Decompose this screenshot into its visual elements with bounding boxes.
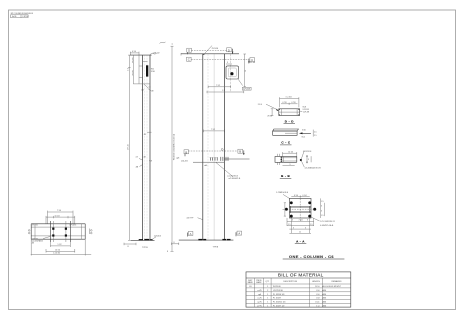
svg-text:DESCRIPTION: DESCRIPTION	[283, 281, 297, 283]
svg-text:2-L2X2X1/4: 2-L2X2X1/4	[303, 151, 312, 153]
leader PL at top	[204, 46, 212, 55]
svg-text:7-8T16: 7-8T16	[22, 16, 28, 18]
svg-text:L2X2X3/16: L2X2X3/16	[273, 290, 284, 292]
section marker A left	[188, 231, 193, 235]
bottom dim	[283, 165, 295, 167]
svg-text:10 1/4: 10 1/4	[55, 250, 60, 252]
D cut line	[191, 50, 226, 52]
svg-text:2-PL3/8: 2-PL3/8	[249, 62, 255, 64]
body	[275, 157, 282, 163]
svg-text:A-36: A-36	[12, 15, 16, 18]
left dim line	[128, 55, 130, 240]
svg-text:1.5: 1.5	[321, 201, 324, 203]
under base dim	[124, 243, 136, 245]
svg-text:1'-3: 1'-3	[128, 68, 130, 71]
svg-text:w/2-3/4 A325 B.: w/2-3/4 A325 B.	[229, 177, 241, 180]
svg-text:2-PL3/8: 2-PL3/8	[303, 109, 309, 111]
left dims	[277, 154, 279, 157]
svg-text:MARK: MARK	[248, 281, 254, 284]
rows	[249, 285, 341, 307]
top dim	[291, 196, 309, 198]
left bracket / clip	[132, 55, 134, 84]
svg-text:10 1/4: 10 1/4	[288, 151, 293, 153]
svg-text:3: 3	[305, 227, 306, 229]
svg-text:7 1/4: 7 1/4	[299, 220, 303, 222]
mid dim 7'-2	[204, 130, 225, 132]
svg-text:W12X40: W12X40	[273, 286, 282, 288]
top squiggle leader	[150, 53, 157, 55]
bolts	[52, 228, 54, 230]
svg-text:PL 3/4X11 1/4: PL 3/4X11 1/4	[273, 302, 286, 304]
right vertical dim	[244, 54, 246, 87]
body horizontal member	[31, 223, 85, 225]
bolt dot	[300, 159, 302, 161]
end circles	[28, 230, 30, 232]
svg-text:cb8 TYP: cb8 TYP	[187, 217, 195, 219]
flange lines	[289, 205, 311, 207]
C cut line	[191, 59, 249, 61]
svg-text:8: 8	[174, 242, 175, 244]
svg-text:PL5/16: PL5/16	[212, 48, 219, 50]
small top dim above plate	[226, 63, 232, 65]
dims below top assembly	[208, 86, 231, 88]
svg-text:1'-2: 1'-2	[222, 90, 225, 92]
plate with hole	[226, 66, 239, 79]
centerlines	[299, 196, 301, 222]
top dim 6 1/4	[130, 52, 139, 54]
section marker C left	[187, 57, 192, 61]
svg-text:D: D	[188, 49, 190, 53]
svg-text:1-7/8Ø HOLE: 1-7/8Ø HOLE	[276, 192, 289, 194]
girt connection lines	[221, 149, 223, 151]
B cut line	[188, 150, 238, 152]
svg-text:PL 3/8X6 3/4: PL 3/8X6 3/4	[273, 294, 285, 296]
svg-text:B: B	[239, 150, 241, 154]
section marker D right	[227, 48, 232, 52]
svg-text:6: 6	[283, 209, 285, 210]
svg-text:1-PL3/4: 1-PL3/4	[154, 235, 162, 237]
section marker D left	[187, 48, 192, 52]
svg-text:BILL OF MATERIAL: BILL OF MATERIAL	[278, 272, 324, 277]
plate leader to PL3/8	[238, 79, 243, 86]
bolt ticks	[210, 158, 212, 161]
bolts	[290, 201, 293, 204]
svg-text:8: 8	[167, 251, 168, 253]
column verticals	[202, 54, 204, 240]
plate	[289, 198, 311, 218]
svg-text:2-1/4: 2-1/4	[258, 104, 262, 106]
svg-text:SC2: SC2	[302, 136, 306, 138]
column flange verticals	[49, 221, 51, 242]
svg-text:2.5: 2.5	[314, 135, 317, 137]
top dim	[283, 152, 297, 154]
svg-text:ALL HOLES Ø13/16": ALL HOLES Ø13/16"	[323, 285, 342, 288]
svg-text:TYP.B: TYP.B	[213, 247, 219, 249]
svg-text:W12X40 COLUMN C6 (24'-0): W12X40 COLUMN C6 (24'-0)	[174, 134, 176, 161]
svg-text:10 1/4: 10 1/4	[55, 215, 60, 217]
svg-text:w/4-3/4: w/4-3/4	[181, 160, 188, 162]
left vertical dim	[271, 109, 273, 116]
right vertical dims	[319, 198, 321, 218]
svg-text:3: 3	[307, 220, 308, 222]
base	[131, 239, 155, 241]
svg-text:A - A: A - A	[296, 239, 305, 243]
svg-text:6 1/4: 6 1/4	[303, 195, 307, 197]
svg-text:3: 3	[292, 220, 293, 222]
svg-text:4-3/4ØX2'-6 A.B.: 4-3/4ØX2'-6 A.B.	[320, 224, 334, 227]
svg-text:ONE - COLUMN - C6: ONE - COLUMN - C6	[289, 254, 334, 259]
svg-text:23'-10: 23'-10	[128, 143, 130, 149]
svg-text:48: 48	[144, 134, 146, 136]
top cap line	[181, 53, 239, 55]
svg-text:11: 11	[299, 232, 301, 234]
top area extension verticals	[230, 54, 232, 92]
leaders below bracket	[144, 84, 148, 88]
weld arrow	[299, 132, 303, 134]
svg-text:5 1/2: 5 1/2	[58, 244, 62, 246]
svg-text:7 1/2: 7 1/2	[216, 85, 220, 87]
svg-text:A: A	[190, 232, 192, 236]
bottom dims	[50, 245, 70, 247]
svg-text:7 1/2: 7 1/2	[211, 129, 215, 131]
svg-text:10: 10	[245, 70, 247, 72]
svg-text:B: B	[185, 150, 187, 154]
svg-text:C - C: C - C	[281, 141, 290, 145]
svg-text:1-PL3/8: 1-PL3/8	[303, 112, 309, 114]
svg-text:3/16: 3/16	[302, 130, 306, 132]
svg-text:D - D: D - D	[285, 119, 294, 123]
svg-text:B - B: B - B	[281, 174, 290, 178]
section marker A right	[237, 231, 242, 235]
svg-text:LENGTH: LENGTH	[312, 281, 321, 283]
svg-text:3: 3	[321, 211, 322, 213]
svg-text:1'-10 3/4: 1'-10 3/4	[53, 253, 60, 255]
svg-text:1-PL5/16: 1-PL5/16	[31, 225, 38, 227]
svg-text:REMARKS: REMARKS	[332, 280, 343, 283]
svg-text:6 7/8: 6 7/8	[292, 102, 296, 104]
svg-text:1.5: 1.5	[288, 224, 291, 226]
black plate mark	[146, 65, 148, 76]
svg-text:3: 3	[293, 227, 294, 229]
svg-text:TYP.B: TYP.B	[142, 247, 148, 249]
section marker C right	[250, 58, 255, 62]
right tiny dims	[312, 130, 314, 137]
svg-text:1-PL 3/4X11X0'-11: 1-PL 3/4X11X0'-11	[320, 221, 335, 223]
column verticals	[142, 55, 144, 240]
left vertical dim	[284, 203, 286, 216]
top-left schedule mini table	[11, 13, 34, 18]
svg-text:MARK: MARK	[256, 281, 262, 284]
svg-text:A: A	[238, 232, 240, 236]
svg-text:8: 8	[172, 44, 174, 45]
svg-text:1-PL1/2: 1-PL1/2	[153, 52, 161, 54]
svg-text:3: 3	[321, 206, 322, 208]
svg-text:3: 3	[227, 62, 228, 64]
top cap	[130, 54, 151, 56]
top dims	[48, 211, 74, 213]
section marker B left	[184, 150, 189, 154]
D-D rect	[279, 109, 300, 116]
svg-text:PL 3/4X7: PL 3/4X7	[273, 298, 282, 300]
svg-text:3: 3	[308, 159, 309, 161]
right leaders	[311, 217, 320, 221]
svg-text:6 7/8: 6 7/8	[283, 102, 287, 104]
svg-text:6 1/4: 6 1/4	[132, 51, 136, 53]
svg-text:1'-1 3/4: 1'-1 3/4	[286, 97, 292, 99]
svg-text:7 1/4: 7 1/4	[57, 210, 61, 212]
long dim between columns	[171, 46, 173, 251]
under base dim	[172, 243, 179, 245]
svg-text:1.5: 1.5	[321, 215, 324, 217]
section marker B right	[238, 149, 243, 153]
svg-text:Ø 3/4: Ø 3/4	[268, 116, 272, 118]
svg-text:D: D	[228, 48, 230, 52]
bottom dims	[290, 218, 292, 233]
svg-text:9: 9	[290, 164, 291, 166]
base of middle column	[179, 239, 234, 241]
svg-text:C: C	[188, 58, 190, 62]
svg-text:2.5: 2.5	[314, 131, 317, 133]
right vertical dims	[306, 156, 308, 164]
svg-text:6 1/4: 6 1/4	[294, 195, 298, 197]
svg-text:PL 3/4X7 1/2: PL 3/4X7 1/2	[273, 305, 285, 307]
svg-text:1.5: 1.5	[310, 224, 313, 226]
